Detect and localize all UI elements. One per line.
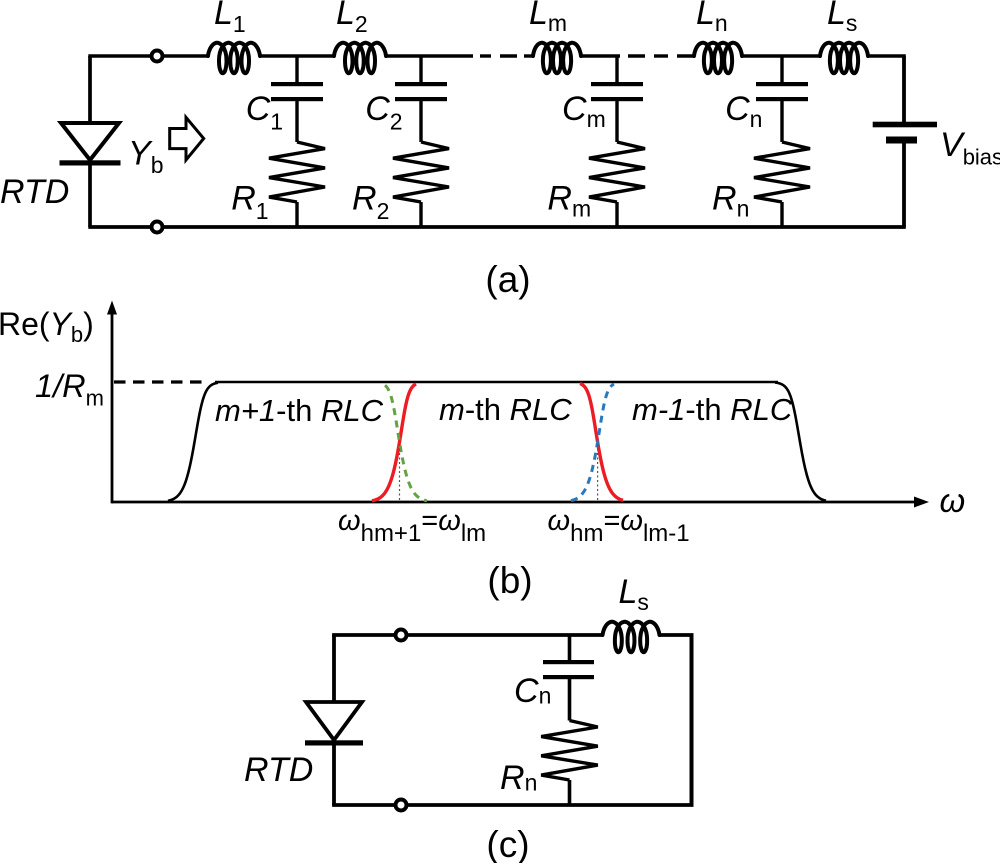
svg-text:m-th RLC: m-th RLC: [439, 392, 572, 427]
svg-text:m+1-th RLC: m+1-th RLC: [215, 393, 384, 428]
svg-text:(c): (c): [486, 824, 529, 863]
svg-text:(b): (b): [487, 560, 532, 601]
svg-text:m-1-th RLC: m-1-th RLC: [632, 392, 793, 427]
svg-text:RTD: RTD: [0, 173, 69, 211]
svg-text:ω: ω: [940, 482, 966, 519]
svg-text:(a): (a): [485, 259, 530, 300]
svg-text:RTD: RTD: [244, 751, 313, 789]
